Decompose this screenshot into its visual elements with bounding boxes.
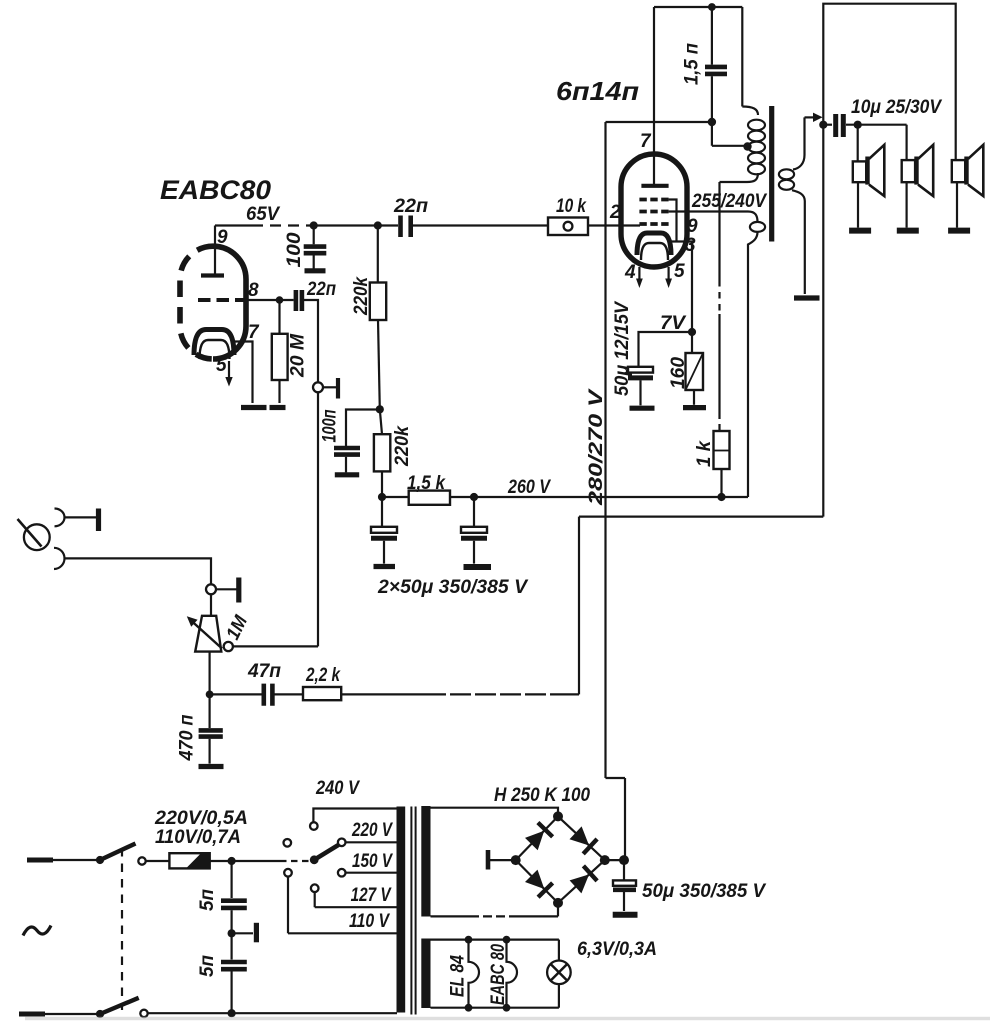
svg-text:5: 5 [216, 355, 227, 376]
contact circle spare left [284, 839, 292, 847]
capacitor 2x50u left negative plate [371, 536, 397, 541]
wire feedback line dashed [425, 693, 560, 695]
resistor 1.5k body [409, 491, 450, 505]
ground chassis bar 2x50u right [464, 564, 492, 570]
ground chassis bar 50u reservoir [613, 912, 638, 918]
capacitor 470n plates [199, 730, 223, 736]
connector socket arc bottom [54, 548, 65, 569]
node bridge left dot [511, 855, 521, 865]
potentiometer 1M arrow line [191, 621, 222, 649]
capacitor 2x50u right lead [473, 497, 475, 526]
wire grid pin8 to coupling cap [246, 299, 294, 301]
svg-text:EABC80: EABC80 [160, 175, 271, 205]
wire lamp bottom lead [558, 984, 560, 1008]
wire primary top entry curve [742, 107, 758, 116]
capacitor 50u cathode negative plate [628, 375, 653, 380]
tube 6p14p grid row g2 [639, 210, 668, 214]
switch contact circle top [138, 857, 145, 864]
ground chassis bar speaker2 [897, 228, 919, 234]
transformer heater winding bar [421, 939, 430, 1009]
capacitor 100pF plates [304, 247, 327, 254]
wire 110V riser [287, 877, 289, 934]
svg-text:260 V: 260 V [507, 477, 551, 498]
scan artifact bottom band [25, 1017, 990, 1020]
wire speaker1 feed [857, 125, 859, 162]
wire primary bottom to 1k dashed2 [718, 413, 720, 431]
tube EABC80 grid dashes pin8 [198, 298, 245, 302]
node bridge top dot [553, 811, 563, 821]
capacitor 100pF lead bottom [313, 255, 315, 268]
ground chassis bar 470n [199, 764, 224, 769]
resistor 220k upper lead [377, 226, 379, 283]
capacitor 50u reservoir lead bottom [623, 892, 625, 911]
tube EABC80 cathode arc [194, 330, 234, 356]
transformer OPT secondary loop 2 [779, 180, 794, 190]
node heater EABC80 top dot [503, 936, 511, 944]
svg-text:47п: 47п [247, 661, 281, 682]
svg-text:470 п: 470 п [177, 714, 198, 761]
svg-text:7V: 7V [660, 313, 686, 334]
switch blade top [100, 844, 136, 861]
svg-text:3: 3 [685, 235, 696, 256]
wire heater top lead [431, 938, 559, 940]
wire heater bottom lead [431, 1007, 559, 1009]
svg-text:5: 5 [674, 261, 685, 282]
capacitor 1.5n plates [705, 67, 727, 74]
svg-text:7: 7 [248, 322, 260, 343]
speaker 1 coil bar [865, 157, 869, 185]
capacitor 50u reservoir positive plate [613, 880, 636, 885]
capacitor 2x50u left positive plate [371, 527, 397, 533]
svg-text:220k: 220k [392, 425, 413, 467]
contact circle 150V [338, 869, 346, 877]
svg-text:10 k: 10 k [556, 196, 587, 217]
tube EABC80 envelope left half dashed [180, 246, 213, 359]
svg-text:6,3V/0,3A: 6,3V/0,3A [577, 939, 657, 960]
capacitor 5n upper plates [221, 901, 247, 908]
wire mains bottom stub [19, 1012, 45, 1017]
switch blade bottom [100, 998, 139, 1014]
bridge diamond outline [516, 816, 605, 903]
wire g2 pin9 lead to screen winding [669, 210, 748, 212]
lamp 6.3V circle [547, 961, 571, 985]
svg-text:5п: 5п [197, 955, 218, 977]
svg-text:220V/0,5A: 220V/0,5A [154, 808, 248, 829]
node heater EL84 bottom dot [465, 1004, 473, 1012]
potentiometer 1M arrow head [187, 616, 198, 626]
capacitor 5n upper lead bottom [231, 910, 233, 933]
ground chassis bar secondary [794, 295, 820, 300]
wire 10u to speakers node [846, 124, 907, 126]
wire wiper to grid riser [233, 645, 318, 647]
capacitor 22n top coupling plates [401, 216, 411, 238]
wire pin5 heater stub [228, 361, 230, 378]
wire 22n to 10k [413, 224, 548, 226]
wire speaker rail rectangle [823, 4, 955, 517]
diode upper-right triangle [570, 826, 590, 845]
contact circle 240V [310, 822, 318, 830]
capacitor 2x50u right positive plate [461, 527, 487, 533]
switch contact circle bottom [140, 1010, 147, 1017]
speaker 1 driver box [853, 161, 866, 182]
connector pickup needle [18, 519, 42, 547]
pin5 arrow head [665, 279, 672, 289]
capacitor 2x50u right negative plate [461, 536, 487, 541]
wire 127V riser [314, 892, 316, 907]
wire bottom line to primary [148, 1012, 397, 1014]
wire speaker2 return [905, 182, 907, 227]
diode upper-left triangle [525, 831, 544, 850]
tube 6p14p envelope [621, 154, 687, 267]
transformer OPT primary loop 1 [748, 120, 765, 131]
wire 240V tap [313, 809, 397, 823]
tube EABC80 anode plate bar [201, 273, 224, 277]
capacitor 5n lower plates [221, 962, 247, 969]
svg-text:127 V: 127 V [351, 885, 392, 906]
transformer OPT secondary loop 1 [779, 169, 794, 179]
capacitor 47n plates [264, 684, 273, 706]
wire cathode pin3 lead [671, 242, 692, 333]
contact circle 220V [338, 839, 346, 847]
wire HV top lead [431, 808, 559, 813]
wire mains top stub [27, 858, 53, 863]
resistor 1k body [714, 431, 730, 469]
capacitor 470n lead top [209, 694, 211, 728]
wire switch to fuse [146, 860, 170, 862]
speaker 2 coil bar [914, 157, 918, 185]
diode lower-right cathode bar [583, 866, 597, 881]
lamp 6.3V cross line 1 [551, 964, 568, 981]
wire pot node to 47n [210, 693, 262, 695]
wire 260V line to 1.5k [382, 496, 409, 498]
wire fuse to selector dashed [280, 860, 310, 862]
resistor 2.2k body [303, 687, 341, 700]
wire secondary hot to rail [805, 116, 814, 118]
wire fuse to selector solid [210, 860, 280, 862]
capacitor 2x50u right lead bottom [473, 541, 475, 564]
capacitor 5n lower lead [231, 933, 233, 959]
transformer core line 1 [410, 807, 412, 1015]
capacitor 1.5n lead top [711, 7, 713, 65]
wire mid node to 100n [346, 410, 380, 447]
svg-text:110V/0,7A: 110V/0,7A [155, 827, 241, 848]
resistor 1k mid line [714, 450, 730, 452]
ground chassis bar 160 [683, 405, 706, 410]
transformer mains primary bar [397, 807, 406, 1013]
node selector common dot [310, 855, 319, 864]
svg-text:255/240V: 255/240V [691, 191, 767, 212]
wire HV bottom lead end [510, 903, 558, 917]
connector pickup plug circle [24, 524, 50, 550]
svg-text:EABC 80: EABC 80 [488, 944, 509, 1005]
terminal chassis bar bridge minus [486, 850, 491, 870]
transformer OPT screen winding exit [748, 232, 758, 497]
fuse filled half [186, 853, 210, 868]
contact circle 110V [284, 869, 292, 877]
wire mains bottom to switch [45, 1013, 100, 1015]
capacitor 50u reservoir negative plate [613, 887, 636, 892]
wire B+ riser from bridge [606, 778, 626, 860]
ground chassis bar speaker3 [948, 228, 970, 234]
lamp 6.3V cross line 2 [551, 964, 568, 981]
selector blade [314, 845, 338, 860]
wire B+ rail vertical [604, 122, 606, 778]
wire feedback line end [560, 517, 579, 695]
svg-text:22п: 22п [306, 279, 336, 300]
transformer OPT core [769, 106, 774, 242]
ground chassis bar 20M [270, 405, 286, 410]
resistor 20M body [272, 334, 288, 380]
wire cathode pin7 to chassis [231, 342, 253, 404]
speaker 3 driver box [952, 160, 965, 182]
terminal chassis bar 5n [254, 923, 259, 943]
transformer OPT primary loop 2 [748, 131, 765, 142]
terminal open circle [313, 382, 323, 392]
wire mid node to chassis [232, 932, 253, 934]
svg-text:100: 100 [284, 232, 305, 267]
svg-text:22п: 22п [393, 196, 428, 217]
svg-text:2,2 k: 2,2 k [305, 665, 341, 686]
diode upper-right cathode bar [583, 839, 597, 854]
svg-text:150 V: 150 V [352, 851, 393, 872]
tube 6p14p cathode arc [637, 233, 671, 255]
ground chassis bar 100pF [305, 268, 326, 273]
capacitor 100pF lead top [313, 226, 315, 245]
speaker 1 horn [869, 145, 884, 196]
node mid divider dot [376, 405, 384, 413]
diode lower-left triangle [525, 870, 544, 889]
transformer OPT screen winding entry [748, 212, 758, 223]
resistor 220k lower body [374, 434, 390, 471]
node junction dot at 220k tap [374, 221, 382, 229]
wire primary bottom to 1k dashed [718, 280, 720, 314]
node bridge bottom dot [553, 898, 563, 908]
capacitor 50u reservoir lead top [623, 860, 625, 880]
ground chassis bar 100n [335, 472, 359, 477]
tube EABC80 envelope right half solid [213, 246, 246, 359]
node heater EL84 top dot [465, 936, 473, 944]
node junction dot at 100pF tap [310, 221, 318, 229]
svg-text:10μ 25/30V: 10μ 25/30V [851, 97, 942, 118]
potentiometer wiper circle [224, 642, 233, 651]
wire B+ rail to tap node [606, 121, 712, 123]
pin5 arrow head [225, 377, 232, 387]
tube 6p14p grid row g1 [639, 222, 668, 226]
wire HV bottom lead dashed [470, 915, 510, 917]
resistor 160 body [686, 353, 704, 390]
wire mains top to switch [53, 859, 100, 861]
wire primary bottom exit curve [720, 173, 759, 182]
wire 65V anode rail dashed part [252, 224, 312, 226]
wire 220V tap [346, 841, 398, 843]
potentiometer 1M body trapezoid [195, 616, 221, 652]
wire terminal T stub [323, 386, 337, 388]
arrow head into speaker rail [813, 113, 823, 122]
node pot bottom dot [206, 691, 214, 699]
wire feedback line solid [341, 693, 425, 695]
wire socket top to chassis [64, 516, 96, 518]
svg-text:4: 4 [624, 262, 636, 283]
capacitor 10u plates [836, 114, 844, 137]
ground chassis bar 50u cathode [630, 406, 655, 411]
svg-text:6п14п: 6п14п [556, 76, 639, 106]
node bottom line dot [228, 1009, 236, 1017]
node bridge right dot [600, 855, 610, 865]
speaker 2 horn [918, 145, 933, 196]
wire 22n to terminal [304, 300, 318, 382]
resistor 10k grid stopper body [548, 218, 588, 236]
wire anode pin7 lead [653, 7, 655, 184]
wire feedback top run to speaker rail [579, 515, 823, 517]
wire speaker1 return [857, 182, 859, 227]
node speaker rail dot [819, 121, 827, 129]
wire 260V line main [450, 496, 748, 498]
capacitor 50u cathode lead bottom [639, 380, 641, 405]
node switch bottom dot [96, 1010, 104, 1018]
node tap feed dot [708, 118, 716, 126]
wire 127V tap [315, 906, 397, 908]
resistor 10k inner circle [564, 222, 573, 231]
svg-text:9: 9 [687, 216, 698, 237]
node primary tap dot [743, 142, 751, 150]
node bridge plus dot [619, 855, 629, 865]
tube 6p14p heater arc [641, 243, 668, 260]
wire 10k to 6p14p grid pin2 [588, 224, 640, 226]
svg-text:50μ 350/385 V: 50μ 350/385 V [642, 881, 766, 902]
speaker 3 horn [968, 145, 983, 196]
diode lower-left cathode bar [538, 883, 553, 897]
svg-text:8: 8 [248, 280, 259, 301]
wire terminal to pot body [210, 594, 212, 616]
svg-text:1,5 п: 1,5 п [682, 43, 703, 85]
speaker 3 coil bar [964, 157, 968, 185]
diode lower-right triangle [570, 874, 590, 893]
svg-text:50μ 12/15V: 50μ 12/15V [612, 301, 633, 396]
resistor 160 lead bottom [693, 390, 695, 405]
resistor 220k upper body [370, 283, 386, 321]
svg-text:110 V: 110 V [349, 911, 390, 932]
contact circle 127V [311, 884, 319, 892]
diode upper-left cathode bar [538, 823, 553, 837]
wire bridge minus to chassis [490, 859, 516, 861]
ground chassis bar speaker1 [849, 228, 871, 234]
transformer OPT secondary entry [793, 117, 805, 169]
transformer OPT screen winding loop [750, 222, 765, 232]
wire cathode node to 50u cap [639, 332, 693, 366]
wire tap feed down and right [712, 122, 746, 146]
svg-text:H 250 K 100: H 250 K 100 [494, 785, 590, 806]
wire rail to 10u cap [823, 124, 832, 126]
transformer HV secondary bar [421, 806, 430, 917]
pin4 arrow head [636, 279, 643, 289]
svg-text:2: 2 [609, 202, 621, 223]
svg-text:280/270 V: 280/270 V [586, 388, 607, 506]
wire pot terminal T stub [216, 588, 237, 590]
resistor 160 lead top [691, 332, 693, 353]
svg-text:100п: 100п [320, 409, 341, 442]
transformer core line 2 [415, 807, 417, 1015]
svg-text:20 M: 20 M [288, 333, 309, 378]
wire primary bottom to 1k solid2 [718, 314, 720, 413]
svg-text:220 V: 220 V [351, 820, 393, 841]
svg-text:5п: 5п [197, 889, 218, 911]
resistor 220k lower lead bottom [381, 471, 383, 497]
wire pin5 heater stub [667, 267, 669, 280]
wire primary top lead [741, 7, 743, 107]
wire HV bottom lead [431, 915, 471, 917]
wire 65V anode rail left solid [215, 224, 252, 226]
capacitor 2x50u left lead bottom [383, 541, 385, 564]
wire pin4 heater stub [638, 267, 640, 280]
fuse body [169, 853, 209, 868]
capacitor 22n coupling cap grid plates [296, 290, 302, 311]
wire 220k upper to mid node [378, 320, 380, 409]
resistor 20M grid leak lead top [278, 300, 280, 334]
svg-text:160: 160 [668, 357, 689, 389]
terminal chassis bar input top [96, 509, 101, 532]
tube 6p14p grid row g3 [639, 198, 668, 202]
wire pot bottom lead [209, 652, 211, 694]
capacitor 470n lead bottom [209, 739, 211, 764]
node heater EABC80 bottom dot [503, 1004, 511, 1012]
node switch top dot [96, 856, 104, 864]
capacitor 2x50u left lead [381, 497, 383, 526]
ground chassis bar 2x50u left [374, 564, 396, 569]
svg-text:1 k: 1 k [694, 440, 715, 467]
wire speaker2 feed [905, 125, 907, 160]
wire 150V tap [346, 872, 398, 874]
transformer OPT primary loop 5 [748, 164, 765, 175]
heater EL84 line with bump [469, 940, 480, 1008]
terminal open circle pot top [206, 584, 216, 594]
capacitor 100n lead bottom [345, 457, 347, 473]
node anode rail dot [708, 3, 716, 11]
tube 6p14p anode bar [641, 184, 668, 188]
capacitor 5n upper lead [231, 861, 233, 898]
svg-text:EL 84: EL 84 [448, 955, 469, 997]
transformer OPT primary loop 4 [748, 153, 765, 164]
resistor 20M lead bottom [278, 380, 280, 403]
wire anode top rail [654, 6, 742, 8]
mains AC symbol tilde [23, 926, 51, 936]
ground chassis bar cathode [241, 405, 267, 410]
wire g3 to cathode internal link [669, 200, 677, 242]
svg-text:2×50μ 350/385 V: 2×50μ 350/385 V [377, 577, 528, 598]
terminal chassis bar pot [236, 578, 241, 603]
wire 47n to 2.2k [275, 693, 304, 695]
svg-text:65V: 65V [246, 204, 280, 225]
capacitor 5n lower lead bottom [231, 972, 233, 1014]
node 5n tap dot [228, 857, 236, 865]
wire bridge plus node [605, 859, 625, 861]
wire speaker3 return [956, 182, 958, 227]
svg-text:1,5 k: 1,5 k [407, 473, 446, 494]
svg-text:7: 7 [640, 131, 652, 152]
capacitor 1.5n lead bottom [711, 76, 713, 122]
transformer OPT secondary exit [792, 190, 805, 294]
wire primary bottom to 1k solid [718, 182, 720, 280]
wire lamp top lead [558, 940, 560, 961]
wire 1k lead bottom [720, 469, 722, 497]
resistor 160 diagonal mark [686, 353, 704, 390]
node 260V 1k dot [717, 493, 725, 501]
terminal chassis bar [336, 378, 340, 399]
node cathode junction dot [688, 328, 696, 336]
speaker 2 driver box [902, 160, 915, 182]
wire input signal line [65, 558, 212, 584]
resistor 220k lower lead top [380, 409, 382, 434]
capacitor 50u cathode positive plate [628, 367, 653, 373]
